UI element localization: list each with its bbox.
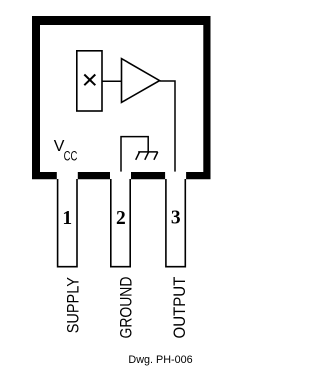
pin 2: [110, 172, 131, 267]
pin 3: [165, 172, 186, 267]
svg-text:2: 2: [116, 208, 126, 229]
wire X1 to amplifier: [102, 80, 121, 82]
svg-text:OUTPUT: OUTPUT: [170, 276, 189, 338]
wire pin 2 to ground: [121, 137, 148, 172]
svg-text:CC: CC: [64, 148, 78, 164]
drawing number: [128, 354, 192, 366]
hall element X1: [77, 51, 102, 111]
package outline U1: [32, 16, 211, 179]
Vcc label: [54, 138, 78, 164]
pin 1: [57, 172, 78, 267]
wire amplifier output to pin 3: [160, 81, 175, 172]
svg-text:3: 3: [171, 208, 181, 229]
SUPPLY label: [64, 277, 82, 334]
svg-text:GROUND: GROUND: [117, 277, 136, 339]
op-amp A1: [122, 59, 160, 103]
GROUND label: [117, 277, 136, 339]
svg-text:SUPPLY: SUPPLY: [64, 277, 82, 334]
OUTPUT label: [170, 276, 189, 338]
ground: [136, 152, 158, 160]
svg-text:Dwg. PH-006: Dwg. PH-006: [128, 354, 192, 366]
svg-text:1: 1: [62, 208, 72, 229]
